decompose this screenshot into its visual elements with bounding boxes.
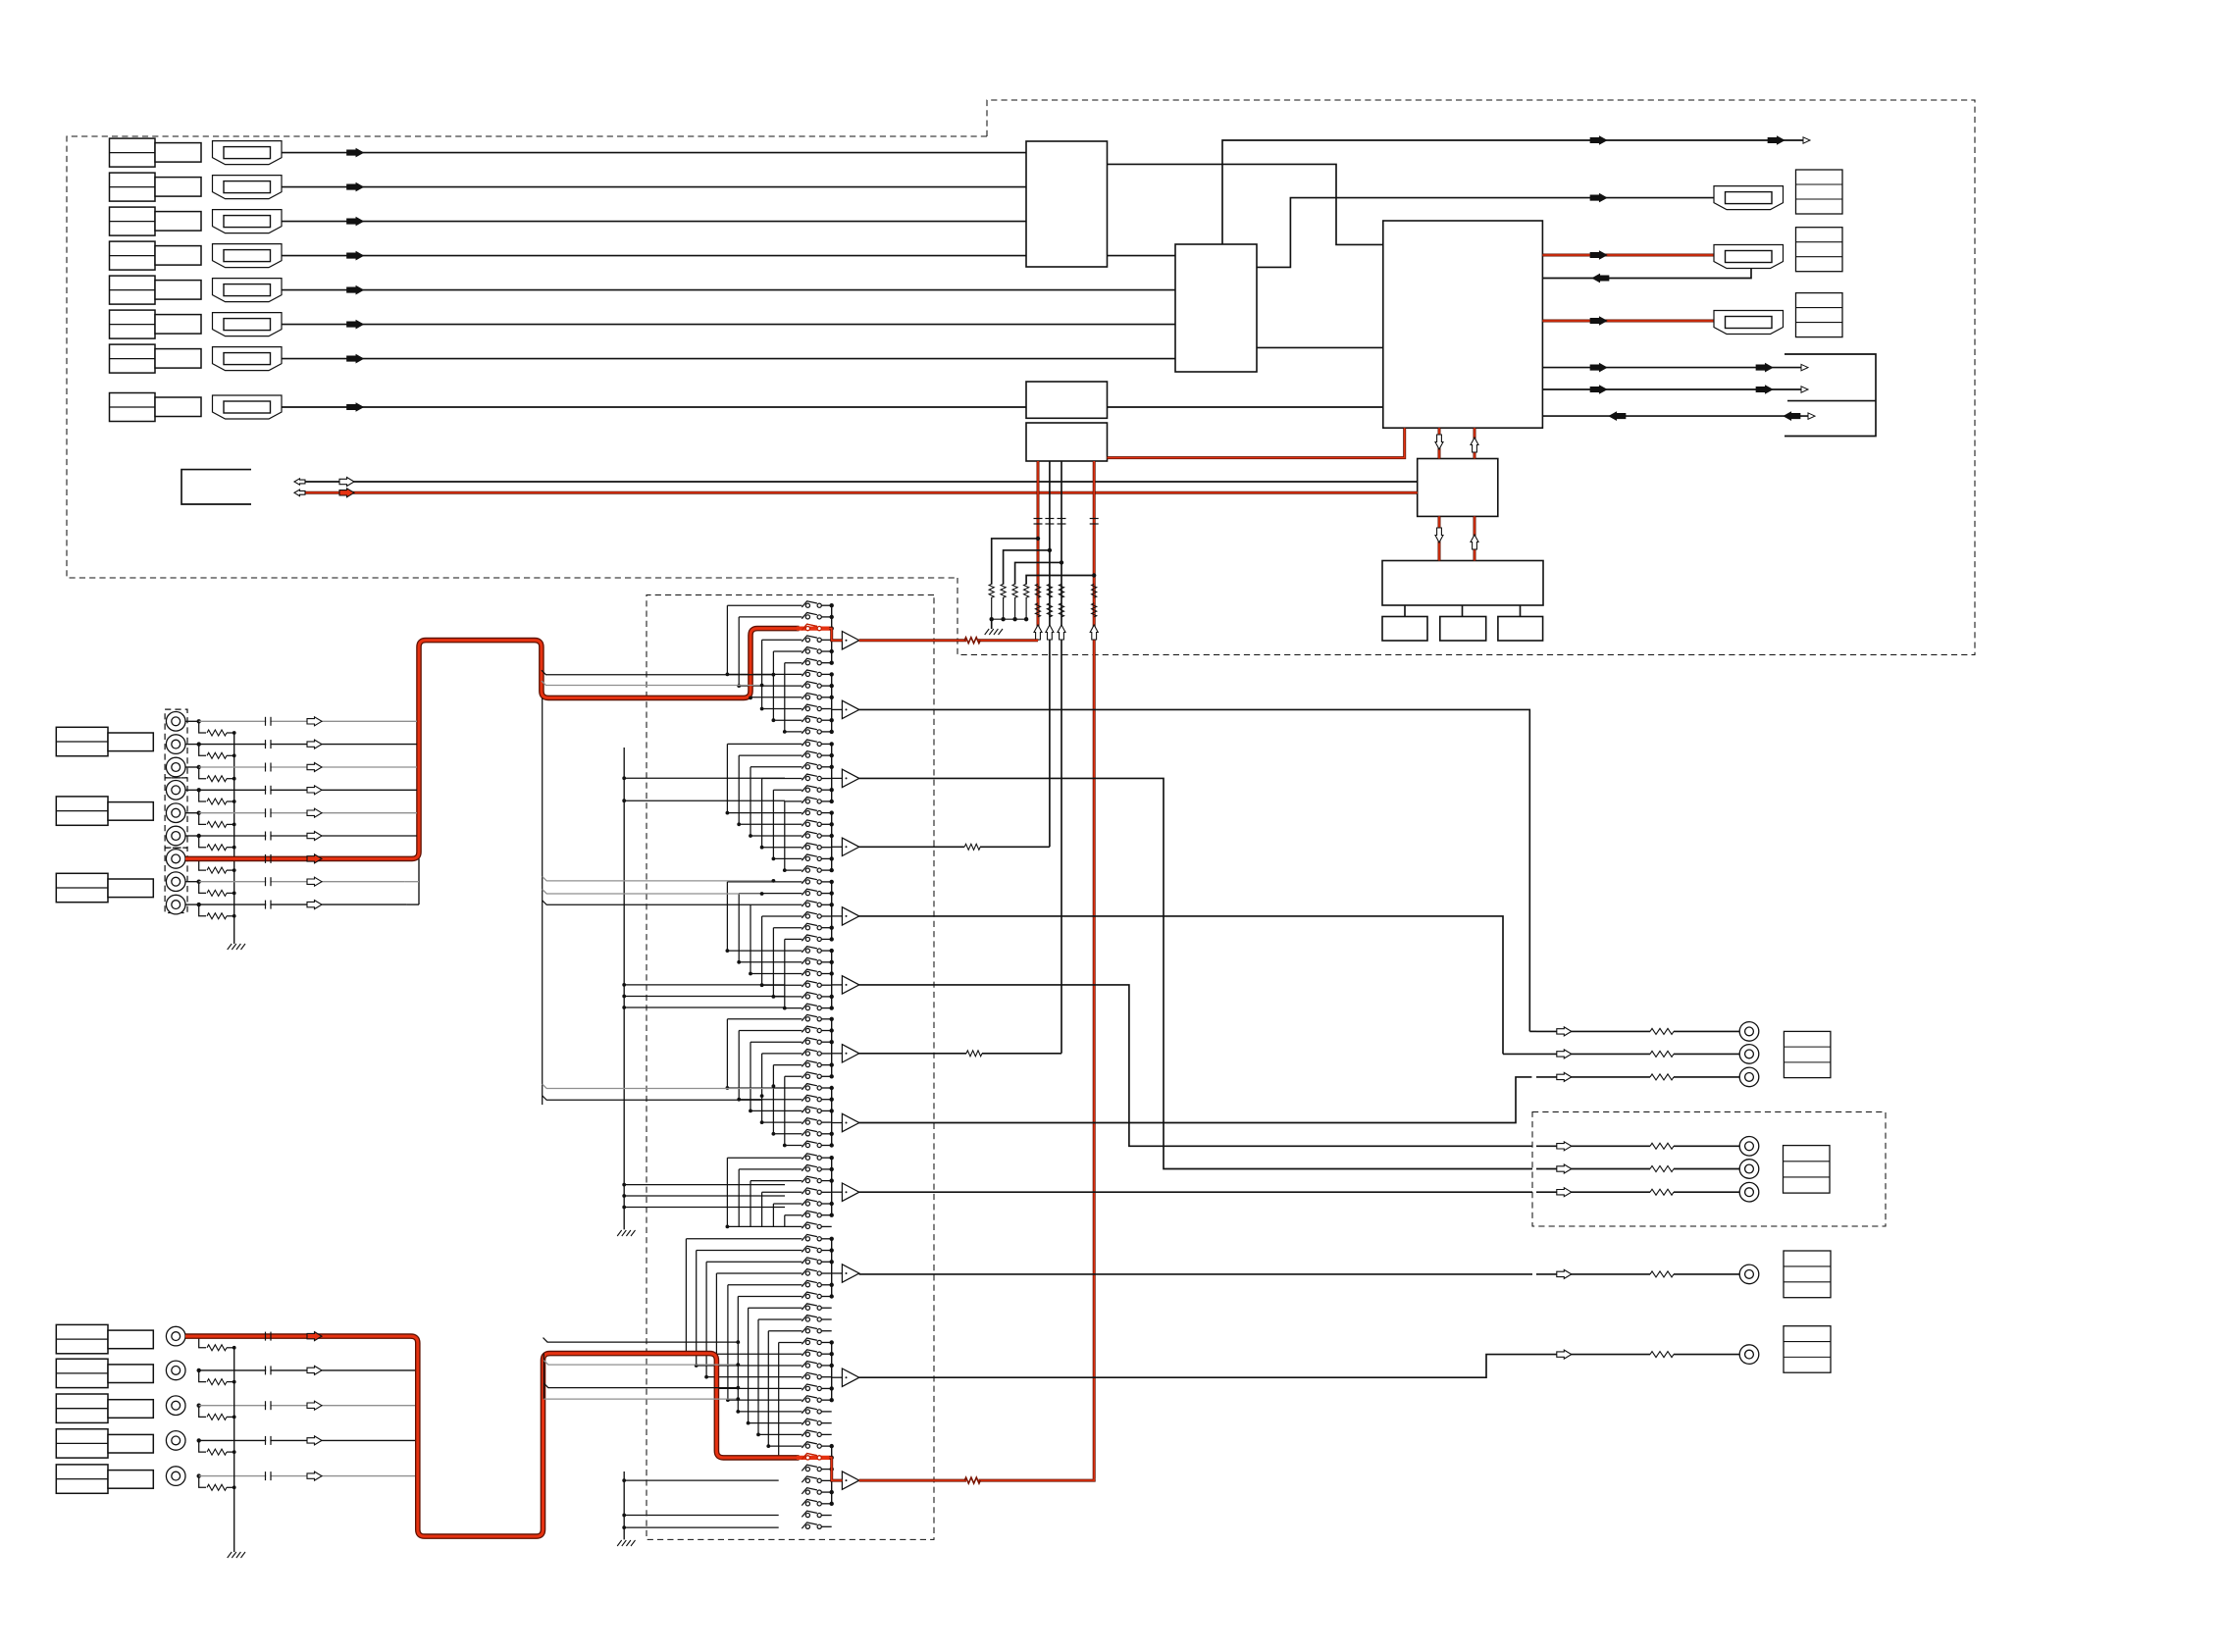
vertical bus V3 from U5 xyxy=(1061,461,1062,1054)
dashed jack group 1 xyxy=(165,709,187,778)
switch S4-6 xyxy=(805,1074,809,1078)
wire: jack U8 stub xyxy=(185,881,199,883)
wire: U2 to U3 xyxy=(1257,346,1383,348)
wire: buffer A7 output to V3 xyxy=(859,1053,966,1055)
wire: HDMI4 between repeater and switch xyxy=(1108,255,1176,257)
wire: matrix column 1-3 xyxy=(750,629,751,697)
switch S1-5 xyxy=(805,649,809,653)
RCA input jack L4 xyxy=(166,1431,185,1451)
ground bus tap xyxy=(624,777,785,779)
analog output group 1 line 1 xyxy=(1536,1030,1650,1032)
switch S2-1 xyxy=(805,742,809,746)
switch S6-8 xyxy=(805,1317,809,1321)
dashed box: rec out selector xyxy=(1532,1112,1886,1227)
peel: cluster4 feeds xyxy=(543,1084,774,1089)
wire: U2 top output line xyxy=(1222,140,1803,244)
switch S6-23 xyxy=(805,1490,809,1494)
switch S3-12 xyxy=(805,1007,809,1010)
wire: matrix column 5-5 xyxy=(772,1204,774,1226)
ground bus tap xyxy=(624,1195,785,1197)
rec out line 1 xyxy=(1536,1145,1650,1147)
switch S3-7 xyxy=(805,949,809,953)
wire: junction bus for amp A8 xyxy=(831,1088,833,1146)
wire: matrix column 4-6 xyxy=(784,1076,786,1145)
ground bus tap low xyxy=(624,1479,779,1481)
switch S4-9 xyxy=(805,1109,809,1112)
block: repeater U4 xyxy=(1026,382,1108,418)
buffer amp A7 xyxy=(842,1045,858,1062)
red switch contact top xyxy=(797,626,831,630)
wire: matrix column 6-1 xyxy=(685,1239,687,1354)
switch S6-9 xyxy=(805,1329,809,1333)
shunt resistor R4 xyxy=(199,790,206,801)
red link U6-U7 up xyxy=(1474,516,1476,560)
rec out terminal box xyxy=(1784,1146,1831,1194)
up arrow on V3 xyxy=(1058,625,1065,640)
lower input label 2 xyxy=(56,1359,108,1387)
phones out terminal box xyxy=(1784,1326,1831,1373)
switch S6-2 xyxy=(805,1248,809,1252)
RCA input jack L5 xyxy=(166,1467,185,1486)
wire: U3 aux return xyxy=(1542,415,1808,417)
wire: matrix column 2-6 xyxy=(784,801,786,870)
RCA input jack L3 xyxy=(166,1396,185,1416)
switch S3-3 xyxy=(805,903,809,906)
upper input label 3 xyxy=(56,873,108,902)
wire: HDMI8 from repeater to main switch xyxy=(1108,406,1383,408)
switch S6-19 xyxy=(805,1444,809,1448)
red switch contact bottom xyxy=(797,1456,831,1460)
resistor pair on V3 xyxy=(1059,584,1063,597)
buffer amp A10 xyxy=(842,1265,858,1282)
ground bus tap xyxy=(624,800,785,801)
wire: matrix column 3-3 xyxy=(750,904,751,973)
switch S3-4 xyxy=(805,914,809,918)
wire: junction bus for amp A11 xyxy=(831,1342,833,1400)
wire: matrix column 6-8 xyxy=(757,1319,759,1434)
wire: matrix column 5-6 xyxy=(784,1215,786,1227)
switch S1-3 xyxy=(805,627,809,631)
dashed box: input selector xyxy=(647,595,934,1540)
buffer amp A2 xyxy=(842,700,858,718)
wire: matrix column 6-9 xyxy=(767,1331,769,1446)
switch S2-5 xyxy=(805,788,809,792)
shunt resistor RL4 xyxy=(199,1440,206,1452)
cable continuation below corner xyxy=(542,697,543,1105)
HDMI output connector 1 xyxy=(1714,186,1784,210)
buffer amp A12 xyxy=(842,1471,858,1489)
dashed box: HDMI switching section xyxy=(957,100,1975,655)
HDMI input connector J5 xyxy=(213,279,283,302)
HDMI input connector J1 xyxy=(213,141,283,165)
ground bus tap low xyxy=(624,1526,779,1528)
upper input label 2 xyxy=(56,797,108,825)
wire: matrix column 1-6 xyxy=(784,663,786,732)
switch S2-8 xyxy=(805,822,809,826)
red link U3-U6 down xyxy=(1438,428,1441,458)
analog output group 1 line 3 xyxy=(1536,1076,1650,1078)
switch S2-3 xyxy=(805,765,809,769)
capacitor on V1 xyxy=(1034,518,1043,520)
wire: input line U1 xyxy=(199,720,417,722)
up arrow on V1 xyxy=(1034,625,1042,640)
switch S6-22 xyxy=(805,1478,809,1482)
RCA input jack U9 xyxy=(166,895,185,914)
wire: matrix column 5-3 xyxy=(750,1181,751,1227)
switch S2-10 xyxy=(805,846,809,850)
wire: HDMI input 4 to switch xyxy=(282,255,1026,257)
wire: buffer A8 output xyxy=(859,1077,1532,1123)
wire: matrix column 6-10 xyxy=(778,1342,780,1457)
vertical bus V2 from U5 xyxy=(1049,461,1051,847)
HDMI input 7 label xyxy=(110,344,156,373)
zone out terminal box xyxy=(1784,1251,1831,1298)
RCA input jack U8 xyxy=(166,872,185,892)
pull-down resistor network xyxy=(992,539,1038,585)
switch S6-5 xyxy=(805,1283,809,1287)
switch S1-6 xyxy=(805,661,809,665)
ground bus tap xyxy=(624,1207,785,1209)
shunt resistor RL3 xyxy=(199,1406,206,1418)
block: microcomputer U7 xyxy=(1382,561,1543,606)
HDMI input 1 label xyxy=(110,138,156,167)
arrow on HDMI input 6 xyxy=(347,320,364,329)
switch S6-20 xyxy=(805,1456,809,1460)
switch S4-11 xyxy=(805,1132,809,1136)
switch S5-7 xyxy=(805,1224,809,1228)
wire: U3 aux out 2 xyxy=(1542,388,1801,390)
shunt resistor R2 xyxy=(199,745,206,756)
buffer amp A1 xyxy=(842,632,858,649)
wire: matrix column 1-5 xyxy=(772,651,774,720)
HDMI input 8 label xyxy=(110,393,156,422)
wire: matrix column 5-2 xyxy=(738,1169,740,1227)
switch S6-25 xyxy=(805,1513,809,1517)
switch S6-4 xyxy=(805,1271,809,1275)
red wire: buffer A12 output to V4 xyxy=(859,1479,966,1482)
switch S4-10 xyxy=(805,1120,809,1124)
peel: lower feeds xyxy=(543,1361,738,1366)
block: sub C xyxy=(1520,605,1522,617)
wire: U3 aux out 1 xyxy=(1542,367,1801,369)
wire: jack U3 stub xyxy=(185,766,199,768)
wire: U1 to U3 xyxy=(1108,164,1383,244)
RCA input jack U3 xyxy=(166,757,185,777)
upper cluster ground bus xyxy=(233,733,235,944)
wire: buffer A3 output xyxy=(859,778,1532,1168)
switch S4-8 xyxy=(805,1098,809,1102)
wire: matrix column 2-4 xyxy=(761,779,763,848)
RCA input jack L2 xyxy=(166,1361,185,1380)
wire: input line U4 xyxy=(199,789,417,791)
output group 1 terminal box xyxy=(1784,1031,1831,1077)
wire: buffer A10 output xyxy=(859,1273,1532,1275)
analog output group 1 line 2 xyxy=(1536,1053,1650,1055)
red wire: buffer A1 output to V1 xyxy=(859,639,966,642)
block: audio return U5 xyxy=(1026,423,1108,461)
wire: matrix column 6-5 xyxy=(727,1285,729,1400)
wire: buffer A4 output to V2 xyxy=(859,846,964,848)
switch S6-10 xyxy=(805,1340,809,1344)
wire: matrix column 6-2 xyxy=(696,1251,698,1366)
lower input label 1 xyxy=(56,1324,108,1353)
wire: HDMI input 5 to switch xyxy=(282,289,1175,291)
shunt resistor RL2 xyxy=(199,1370,206,1382)
switch S5-2 xyxy=(805,1167,809,1171)
switch S6-6 xyxy=(805,1294,809,1298)
wire: jack U1 stub xyxy=(185,720,199,722)
switch S1-11 xyxy=(805,718,809,722)
HDMI out 2 terminal box xyxy=(1796,228,1843,272)
wire: lower input line L3 xyxy=(199,1405,416,1407)
HDMI input 5 label xyxy=(110,276,156,304)
ground bus tap xyxy=(624,984,785,986)
HDMI input connector J6 xyxy=(213,313,283,336)
buffer amp A6 xyxy=(842,976,858,994)
peel: cluster3 feeds xyxy=(543,876,774,881)
switch S5-6 xyxy=(805,1213,809,1217)
ground bus tap low xyxy=(624,1515,779,1517)
switch S6-21 xyxy=(805,1468,809,1471)
ground bus tap xyxy=(624,1007,785,1008)
switch S4-4 xyxy=(805,1052,809,1056)
switch S3-6 xyxy=(805,937,809,941)
switch S5-5 xyxy=(805,1202,809,1206)
switch S4-7 xyxy=(805,1086,809,1090)
block: HDMI main switch U3 xyxy=(1383,221,1543,428)
switch S2-11 xyxy=(805,856,809,860)
shunt resistor R5 xyxy=(199,813,206,825)
wire: input line U2 xyxy=(199,744,417,746)
wire: matrix column 2-5 xyxy=(772,790,774,858)
lower cluster ground xyxy=(228,1552,233,1558)
up arrow on V4 xyxy=(1090,625,1098,640)
wire: jack U4 stub xyxy=(185,789,199,791)
RCA input jack U4 xyxy=(166,781,185,800)
HDMI out 3 terminal box xyxy=(1796,293,1843,337)
wire: rows 8-9 merge into cable xyxy=(418,858,420,904)
block: HDMI receiver U2 xyxy=(1175,244,1257,372)
switch S6-15 xyxy=(805,1398,809,1402)
wire: HDMI input 7 to switch xyxy=(282,358,1175,360)
switch S6-11 xyxy=(805,1352,809,1356)
switch S4-12 xyxy=(805,1143,809,1147)
switch S6-1 xyxy=(805,1237,809,1241)
switch S6-26 xyxy=(805,1524,809,1528)
wire: matrix column 4-5 xyxy=(772,1065,774,1134)
wire: junction bus for amp A5 xyxy=(831,882,833,940)
shunt resistor R8 xyxy=(199,882,206,894)
resistor pair on V1 xyxy=(1035,584,1040,597)
wire: junction bus for amp A9 xyxy=(831,1158,833,1215)
switch S6-17 xyxy=(805,1421,809,1425)
wire: buffer A2 output xyxy=(859,709,1530,1031)
lower cluster ground bus xyxy=(233,1348,235,1552)
red wire: selected row to buffer A1 xyxy=(829,629,842,641)
wire: U2 to HDMI out 1 xyxy=(1257,198,1714,268)
shunt resistor R7 xyxy=(199,858,206,870)
network rail xyxy=(992,618,1026,620)
HDMI output connector 3 xyxy=(1714,311,1784,335)
switch S3-9 xyxy=(805,971,809,975)
ground bus tap xyxy=(624,996,785,998)
lower input label 5 xyxy=(56,1465,108,1493)
wire: front panel data xyxy=(305,481,1418,483)
switch S6-24 xyxy=(805,1502,809,1506)
HDMI input connector J8 xyxy=(213,395,283,419)
switch S2-2 xyxy=(805,753,809,757)
wire: jack U9 stub xyxy=(185,903,199,905)
switch S5-1 xyxy=(805,1156,809,1160)
wire: junction bus for amp A12 xyxy=(831,1446,833,1504)
ground for network xyxy=(991,619,993,629)
switch S3-8 xyxy=(805,960,809,964)
shunt resistor R9 xyxy=(199,904,206,916)
wire: input line U8 xyxy=(199,881,405,883)
wire: matrix column 5-1 xyxy=(726,1158,728,1226)
upper input label 1 xyxy=(56,727,108,755)
capacitor on lower CD line over red xyxy=(265,1332,267,1341)
peel: selector feed 2 xyxy=(542,681,762,686)
switch S5-3 xyxy=(805,1179,809,1183)
switch S6-12 xyxy=(805,1364,809,1368)
wire: to line out R xyxy=(1503,1053,1536,1055)
arrow on HDMI input 3 xyxy=(347,217,364,226)
RCA input jack U2 xyxy=(166,735,185,754)
wire: U3 red HDMI out B xyxy=(1542,320,1714,323)
wire: matrix column 4-3 xyxy=(750,1042,751,1110)
resistor pair on V2 xyxy=(1047,584,1052,597)
wire: matrix column 6-6 xyxy=(737,1297,739,1412)
buffer amp A4 xyxy=(842,838,858,855)
switch S4-3 xyxy=(805,1040,809,1044)
switch S6-7 xyxy=(805,1306,809,1310)
wire: matrix column 6-4 xyxy=(715,1273,717,1388)
wire: to line out L xyxy=(1529,1030,1536,1032)
RCA input jack U1 xyxy=(166,712,185,732)
buffer amp A3 xyxy=(842,769,858,787)
wire: junction bus for amp A3 xyxy=(831,744,833,801)
HDMI input 6 label xyxy=(110,310,156,338)
aux terminal bracket xyxy=(1785,354,1876,437)
wire: input line U6 xyxy=(199,835,417,837)
wire: jack U5 stub xyxy=(185,812,199,814)
peel: lower feed above corner xyxy=(543,1338,739,1343)
peel: selector feed 1 xyxy=(542,670,774,675)
switch S3-11 xyxy=(805,995,809,999)
block: HDMI receiver U1 xyxy=(1026,141,1108,267)
switch S1-8 xyxy=(805,684,809,688)
switch S2-6 xyxy=(805,800,809,803)
arrow on HDMI input 5 xyxy=(347,285,364,294)
HDMI input 2 label xyxy=(110,173,156,201)
wire: input line U3 xyxy=(199,766,417,768)
buffer amp A5 xyxy=(842,907,858,925)
wire: junction bus for amp A6 xyxy=(831,951,833,1008)
switch S1-7 xyxy=(805,672,809,676)
HDMI input connector J2 xyxy=(213,176,283,199)
wire: HDMI input 6 to switch xyxy=(282,324,1175,326)
RCA input jack U7 xyxy=(166,850,185,869)
wire: HDMI input 1 to switch xyxy=(282,152,1026,154)
shunt resistor R3 xyxy=(199,767,206,779)
HDMI input 3 label xyxy=(110,207,156,235)
wire: matrix column 6-7 xyxy=(748,1308,750,1422)
wire: junction bus for amp A1 xyxy=(831,605,833,663)
wire: matrix column 4-1 xyxy=(726,1019,728,1088)
arrow on HDMI input 4 xyxy=(347,251,364,260)
wire: matrix column 3-5 xyxy=(772,928,774,997)
switch S1-9 xyxy=(805,696,809,699)
zone out line xyxy=(1536,1273,1650,1275)
RCA input jack L1 xyxy=(166,1326,185,1346)
red link U3-U6 up xyxy=(1474,428,1476,458)
wire: buffer A6 output xyxy=(859,985,1532,1146)
wire: matrix column 4-4 xyxy=(761,1054,763,1122)
switch S4-2 xyxy=(805,1028,809,1032)
switch S1-10 xyxy=(805,706,809,710)
HDMI input connector J4 xyxy=(213,244,283,268)
wire: junction bus for amp A2 xyxy=(831,674,833,732)
wire: junction bus for amp A4 xyxy=(831,813,833,871)
wire: lower input line L5 xyxy=(199,1475,416,1477)
arrow on HDMI input 2 xyxy=(347,182,364,191)
wire: HDMI input 2 to switch xyxy=(282,186,1026,188)
switch S1-2 xyxy=(805,615,809,619)
wire: matrix column 2-1 xyxy=(726,744,728,812)
capacitor on V3 xyxy=(1058,518,1066,520)
RCA input jack U5 xyxy=(166,803,185,823)
cable continuation below lower corner xyxy=(543,1354,544,1400)
wire: jack U2 stub xyxy=(185,744,199,746)
shunt resistor RL5 xyxy=(199,1476,206,1488)
block: control U6 xyxy=(1418,459,1498,517)
switch S2-4 xyxy=(805,776,809,780)
HDMI input connector J7 xyxy=(213,347,283,371)
block: sub A xyxy=(1404,605,1406,617)
wire: matrix column 1-2 xyxy=(738,617,740,686)
shunt resistor R6 xyxy=(199,836,206,848)
resistor pair on V4 xyxy=(1092,584,1097,597)
switch S6-18 xyxy=(805,1432,809,1436)
front panel bracket xyxy=(181,470,251,504)
switch S2-12 xyxy=(805,868,809,872)
wire: matrix column 5-4 xyxy=(761,1192,763,1226)
capacitor on V2 xyxy=(1045,518,1054,520)
capacitor on V4 xyxy=(1090,518,1099,520)
wire: matrix column 4-2 xyxy=(738,1031,740,1100)
rec out line 3 xyxy=(1536,1191,1650,1193)
shunt resistor RL1 xyxy=(199,1336,206,1348)
arrow on lower CD line over red xyxy=(307,1332,322,1341)
switch S5-4 xyxy=(805,1190,809,1194)
wire: matrix column 1-1 xyxy=(726,605,728,674)
thick red highlighted path: CD input to selector xyxy=(185,629,800,859)
wire: buffer A11 output xyxy=(859,1355,1536,1378)
vertical bus V4 from U5 xyxy=(1093,461,1096,1478)
wire: matrix column 2-3 xyxy=(750,767,751,836)
switch S6-13 xyxy=(805,1375,809,1379)
wire: U3 red HDMI out A xyxy=(1542,254,1714,257)
upper cluster ground xyxy=(228,944,233,950)
HDMI input connector J3 xyxy=(213,210,283,233)
wire: matrix column 3-2 xyxy=(738,894,740,962)
wire: matrix column 1-4 xyxy=(761,640,763,708)
switch S3-5 xyxy=(805,926,809,930)
switch S6-14 xyxy=(805,1386,809,1390)
switch S1-1 xyxy=(805,603,809,607)
arrow on HDMI input 8 xyxy=(347,403,364,411)
